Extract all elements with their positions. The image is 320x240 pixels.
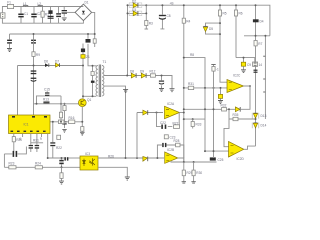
wire y121.8 link (IC edge to emitter): [50, 121, 82, 123]
capacitor C8 (electrolytic snubber): [159, 5, 171, 29]
wire y57.6 link right: [236, 58, 255, 62]
capacitor C25 (dark, end of bus): [210, 157, 224, 162]
op-amp U4 (top right): [227, 74, 244, 93]
connector J1 (AC input): [1, 13, 6, 18]
resistor R13 (inline base): [43, 97, 50, 103]
wire U3 input y151.1: [205, 150, 229, 152]
wire U2A output: [180, 112, 184, 114]
diode D7 (yellow): [55, 59, 60, 67]
diode D8 (yellow, output): [130, 69, 136, 78]
svg-text:R12: R12: [150, 69, 156, 73]
resistor R17 (x61 drop): [59, 96, 62, 122]
wire x213.5 cap to bus: [212, 118, 214, 120]
svg-text:Q1: Q1: [87, 98, 91, 102]
resistor R2 (on bridge output drop): [93, 34, 96, 47]
wire y57.6 link left: [184, 58, 205, 152]
wire secondary top lead (output line y75.5): [104, 76, 172, 89]
wire D12 to x250: [240, 86, 250, 109]
svg-text:C15: C15: [44, 88, 50, 92]
wire aux line y65.5: [18, 65, 84, 67]
svg-text:R6: R6: [239, 12, 243, 16]
op-amp U2A: [165, 102, 180, 119]
wire mid rail y34: [10, 33, 95, 35]
resistor R37 (inline): [59, 120, 65, 124]
wire top rail: [2, 7, 83, 13]
capacitor C2: [31, 7, 41, 24]
resistor R34 (top of x213.5): [212, 67, 215, 72]
svg-text:R22: R22: [56, 146, 62, 150]
diode D4 (black body): [253, 19, 264, 23]
crystal X1 (boxed): [253, 62, 263, 67]
supply stub bar: [211, 64, 215, 66]
wire U2B output: [178, 158, 184, 162]
resistor R32 (inline y109.3): [221, 104, 227, 112]
capacitor C26 (yellow to ground): [218, 88, 223, 104]
transformer T1 primary winding: [96, 66, 98, 96]
wire rail D x255.5: [255, 5, 257, 146]
transformer T1 secondary winding: [102, 66, 104, 96]
wire sense link x137: [136, 113, 138, 159]
wire U2A input y112.5: [137, 112, 163, 114]
svg-text:IC3: IC3: [85, 152, 90, 156]
resistor R15 (on emitter): [81, 127, 84, 132]
wire U2A feedback loop: [157, 113, 180, 127]
wire drop x33.5 (from y34 rail): [33, 34, 35, 115]
wire output rail x265.4: [264, 36, 266, 119]
capacitor C15 (on loop): [44, 88, 50, 97]
diode D2 (top rectifier, yellow): [128, 0, 147, 8]
svg-text:C25: C25: [218, 158, 224, 162]
wire primary top lead: [88, 44, 96, 66]
resistor R31 (inline y87.9): [188, 82, 194, 89]
svg-text:R31: R31: [188, 82, 194, 86]
wire U3 feedback loop from diode chain midpoint: [224, 109, 256, 146]
diode D12 (yellow inline): [235, 107, 240, 112]
resistor R29 (to ground): [182, 162, 193, 183]
capacitor C10: [254, 70, 258, 73]
resistor R27 (feedback): [173, 121, 180, 128]
wire secondary lower lead: [104, 86, 126, 158]
optocoupler IC3 (yellow): [80, 152, 98, 170]
svg-text:D4: D4: [260, 20, 264, 24]
resistor R7 (on rail D): [254, 41, 263, 46]
svg-text:R4: R4: [186, 20, 190, 24]
wire opto out lower to ground: [98, 167, 127, 177]
wire diode pair left node: [127, 5, 129, 75]
wire rail C x236: [235, 5, 237, 57]
wire bottom bus y167.3: [4, 166, 80, 168]
svg-text:R24: R24: [35, 162, 41, 166]
resistor R5 (on rail B): [218, 10, 226, 16]
diode chain D13 (yellow vertical): [252, 113, 266, 119]
diode D5 loop (yellow): [203, 23, 220, 34]
wire right-edge link y35.8: [244, 35, 270, 37]
svg-text:D2: D2: [132, 0, 136, 4]
capacitor C7 (hangs at x88): [86, 34, 91, 43]
svg-text:R16: R16: [69, 116, 75, 120]
capacitor C3: [56, 7, 61, 24]
resistor R35 (inline y119): [233, 117, 238, 120]
thermistor TH1: [48, 7, 54, 24]
svg-text:C22: C22: [160, 121, 166, 125]
svg-text:R13: R13: [43, 97, 49, 101]
IC U1 (PWM controller, yellow): [9, 115, 51, 141]
wire top-right rail: [146, 5, 270, 36]
resistor R30 (to ground): [191, 162, 202, 183]
wire left drop x17.5: [17, 66, 19, 116]
svg-text:D3: D3: [132, 8, 136, 12]
diode D11 (yellow inline): [143, 110, 148, 115]
svg-text:R5: R5: [223, 12, 227, 16]
resistor R9 (on x33.5): [32, 52, 40, 57]
ground (under C4): [62, 18, 67, 21]
svg-text:T1: T1: [103, 60, 107, 64]
resistor R4 (on rail A): [182, 18, 190, 23]
svg-text:R27: R27: [173, 121, 179, 125]
svg-text:D6: D6: [44, 60, 48, 64]
wire bottom bus y162: [171, 160, 217, 163]
ground (near x125.5): [123, 90, 128, 93]
wire right link y87.9: [184, 87, 229, 89]
wire IC pin drop x13.8: [13, 134, 15, 152]
svg-text:IC2A: IC2A: [167, 102, 175, 106]
diode D9 (yellow, output): [140, 69, 146, 78]
svg-text:R7: R7: [258, 42, 262, 46]
capacitor C21 (x66 opto left): [64, 157, 80, 160]
resistor R6 (on rail C): [234, 10, 242, 16]
svg-text:R3: R3: [149, 22, 153, 26]
tap stub 1: [263, 55, 265, 57]
svg-text:R21: R21: [33, 139, 39, 143]
resistor R19 (below, near IC right): [57, 135, 61, 139]
tap stub 2: [263, 78, 265, 80]
wire U3 output loop: [244, 146, 256, 149]
inductor L1: [23, 2, 28, 7]
resistor R11 (snubber across primary): [91, 66, 95, 97]
resistor R25 (below bus, ground): [59, 167, 64, 184]
wire rail A x184: [183, 5, 185, 162]
bridge rectifier D1: [75, 0, 92, 20]
diode D3 (yellow, parallel): [128, 8, 147, 16]
resistor R20: [12, 137, 22, 142]
svg-text:R35: R35: [233, 113, 239, 117]
node base (junction): [32, 103, 34, 105]
wire emitter drop x83: [81, 107, 83, 132]
ground (emitter): [80, 132, 85, 135]
svg-text:IC2D: IC2D: [237, 157, 245, 161]
wire diode pair right node (snubber R3 below): [145, 5, 149, 29]
capacitor C9 (yellow): [241, 58, 251, 73]
wire bottom rail: [2, 18, 83, 23]
capacitor C24 (feedback U2B): [162, 143, 166, 147]
tap stub 3: [263, 91, 265, 93]
capacitor C11 (on x33.5): [31, 70, 37, 74]
svg-text:D13: D13: [261, 114, 267, 118]
svg-text:R32: R32: [221, 104, 227, 108]
svg-text:R26: R26: [108, 155, 114, 159]
resistor R14 (hangs x62.5): [62, 104, 66, 128]
capacitor C18 (IC pin x30.8): [29, 134, 33, 153]
capacitor C19 (IC pin x36.9): [35, 134, 39, 153]
svg-text:L2: L2: [38, 2, 42, 6]
svg-text:IC1: IC1: [24, 123, 29, 127]
inductor L2: [38, 2, 43, 7]
zener Z1 (yellow): [81, 55, 90, 59]
diode D6: [44, 60, 49, 67]
svg-text:9: 9: [40, 137, 42, 141]
resistor R28 (feedback U2B): [174, 139, 181, 147]
svg-text:R33: R33: [196, 123, 202, 127]
svg-text:C9: C9: [247, 63, 251, 67]
svg-text:D1: D1: [85, 0, 89, 4]
capacitor C1: [18, 7, 28, 24]
capacitor C4 (left of bridge): [62, 7, 76, 17]
wire rail B x220: [220, 5, 227, 82]
svg-text:R30: R30: [196, 171, 202, 175]
svg-text:IC2B: IC2B: [167, 148, 174, 152]
wire IC link y142.8: [31, 142, 43, 144]
svg-text:F1: F1: [7, 1, 11, 5]
svg-text:R20: R20: [16, 138, 22, 142]
capacitor C12 (electrolytic on x33.5): [31, 78, 37, 82]
ground (x127): [125, 177, 130, 180]
svg-text:14: 14: [259, 63, 263, 67]
ground (output right): [170, 89, 175, 92]
transistor Q1 (yellow): [78, 98, 91, 107]
capacitor C23 (small below): [164, 135, 175, 140]
resistor R23 (inline bus): [9, 162, 17, 169]
svg-text:D9: D9: [140, 69, 144, 73]
capacitor C22 (feedback): [160, 121, 166, 129]
svg-text:C8: C8: [167, 14, 171, 18]
resistor R24 (inline bus): [35, 162, 42, 169]
capacitor C13 (electrolytic to ground): [159, 76, 164, 92]
svg-text:IC2C: IC2C: [233, 74, 241, 78]
capacitor C5 (Y-cap with ground): [7, 34, 12, 52]
svg-text:D14: D14: [261, 124, 267, 128]
wire film cap left drop: [3, 154, 5, 167]
capacitor C17 (film): [4, 147, 26, 157]
resistor R12 (inline): [150, 69, 156, 77]
svg-text:D7: D7: [55, 59, 59, 63]
capacitor C14 (x52.8 drop to opto line): [50, 122, 55, 158]
op-amp U2B: [165, 148, 178, 164]
resistor R1 (vertical between rails): [41, 7, 49, 24]
wire mid rail x213.5: [213, 65, 215, 159]
svg-text:R23: R23: [9, 162, 15, 166]
resistor R33 (hangs y119.1): [191, 119, 201, 128]
svg-text:D5: D5: [209, 27, 213, 31]
op-amp U3 (bottom right): [229, 142, 245, 162]
svg-text:C1: C1: [24, 12, 28, 16]
wire bridge output: [92, 12, 95, 34]
diode chain D14 (yellow vertical): [252, 123, 266, 129]
svg-text:R8: R8: [190, 53, 194, 57]
fuse F1: [7, 1, 13, 9]
wire right link y109.3: [184, 108, 235, 110]
zener chain: resistor R10 dark: [81, 44, 85, 99]
wire right link y119.1: [184, 118, 205, 120]
wire IC top loop y95.9: [34, 96, 79, 104]
svg-text:R9: R9: [36, 53, 40, 57]
resistor R16 (inline): [69, 116, 75, 123]
wire U4 output: [244, 86, 251, 90]
wire primary bottom lead: [83, 95, 96, 97]
ground (below C14 x62.5): [62, 129, 66, 132]
svg-text:L1: L1: [23, 2, 27, 6]
svg-text:R28: R28: [174, 139, 180, 143]
svg-text:D8: D8: [130, 69, 134, 73]
transformer T1 core: [99, 65, 101, 98]
wire U2B feedback: [157, 145, 183, 158]
diode D10 (yellow inline): [143, 157, 148, 162]
wire pin x47.7 to opto line: [48, 134, 67, 159]
capacitor C20 (x61.5 drop): [59, 158, 63, 167]
svg-text:-1: -1: [216, 68, 219, 72]
capacitor C6 (on x33.5 drop): [31, 40, 36, 44]
wire opto out upper y158: [98, 157, 164, 159]
